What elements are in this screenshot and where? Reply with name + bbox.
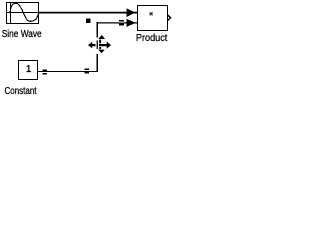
arrowhead input 2	[126, 19, 135, 27]
asterisk	[150, 12, 153, 15]
output chevron	[168, 15, 171, 21]
wire	[38, 70, 98, 72]
cursor vertical bar	[99, 39, 101, 50]
Product block	[138, 6, 171, 31]
handle square S3	[42, 69, 47, 74]
wire	[39, 12, 139, 14]
handle square S2	[119, 20, 124, 26]
arrowhead input 1	[127, 8, 136, 17]
svg-text:Sine Wave: Sine Wave	[2, 29, 42, 40]
wire vertical bottom piece	[96, 54, 98, 72]
cursor up arrow	[98, 35, 105, 39]
cursor horizontal bar with left and right arrows	[88, 42, 111, 49]
svg-text:1: 1	[26, 64, 32, 75]
wire vertical top piece	[96, 22, 98, 38]
svg-text:Product: Product	[136, 33, 168, 44]
cursor down arrow	[98, 50, 105, 54]
svg-text:Constant: Constant	[5, 86, 37, 97]
Constant block	[19, 61, 38, 80]
wire fragment through cursor with white halo	[96, 40, 100, 49]
Sine Wave block	[7, 2, 39, 24]
handle square S1	[86, 19, 91, 24]
move cursor	[88, 35, 111, 53]
wire	[97, 22, 138, 24]
handle square S4	[84, 69, 89, 74]
